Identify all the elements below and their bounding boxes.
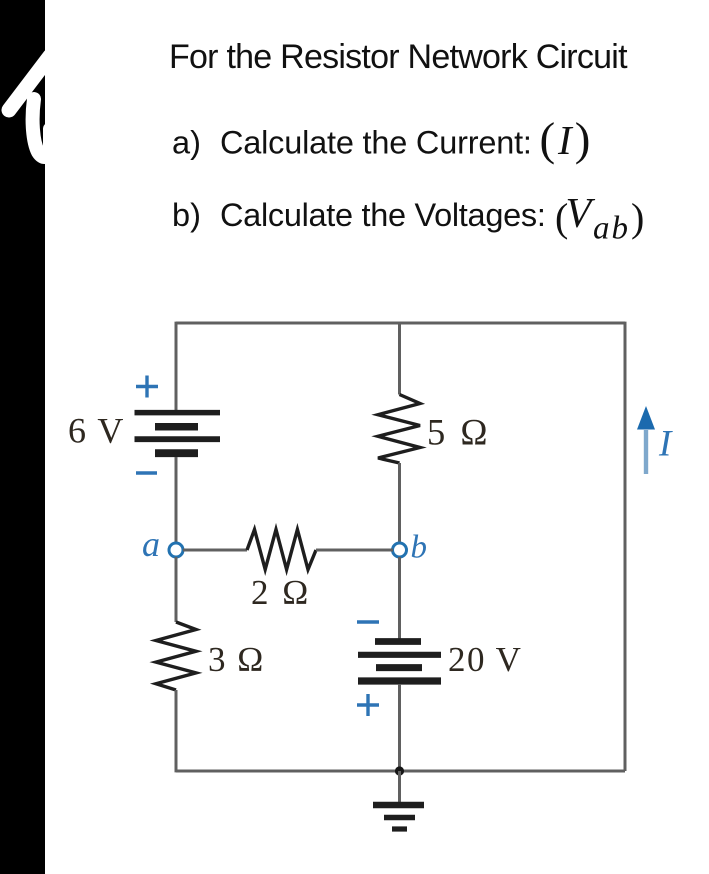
wire left bottom (R 3ohm to bottom wire) [175,690,178,772]
wire from node a to R 2ohm [183,549,247,552]
svg-text:6 V: 6 V [68,411,125,451]
node b terminal [393,543,407,557]
svg-text:a: a [142,524,160,564]
label node b [411,530,428,566]
wire middle lower (node b to battery V2) [398,557,401,639]
wire left upper (top to battery V1) [175,322,178,410]
label node a [142,524,160,564]
label 6 V [68,411,125,451]
svg-text:2 Ω: 2 Ω [251,573,311,612]
resistor R3 3ohm [156,622,196,690]
label 2 ohm [251,573,311,612]
svg-text:): ) [631,195,644,240]
resistor R2 2ohm [247,530,316,570]
node a terminal [169,543,183,557]
svg-text:V: V [566,191,596,237]
item a text [172,114,590,166]
battery V1 6V [135,413,221,454]
wire left lower (node a to R 3ohm) [175,557,178,622]
svg-text:Calculate the Current:: Calculate the Current: [220,125,532,161]
svg-text:For the Resistor Network Circu: For the Resistor Network Circuit [169,38,628,76]
svg-text:20 V: 20 V [448,640,522,679]
wire right side [624,322,627,771]
wire middle upper (top to R 5ohm) [398,323,401,395]
svg-text:): ) [575,114,591,166]
item b text [172,191,644,247]
wire middle mid (R 5ohm to node b) [398,463,401,543]
label 5 ohm [427,412,491,453]
label 3 ohm [208,640,265,679]
wire top [176,322,625,325]
junction dot [395,766,404,775]
label I [658,424,673,465]
scan margin black bar [0,0,45,874]
label 20 V [448,640,522,679]
wire left mid (battery to node a) [175,457,178,543]
wire bottom [176,770,625,773]
plus sign of V2 [357,694,379,716]
handwritten white mark [9,56,50,157]
minus sign of V2 [357,620,379,623]
svg-text:a): a) [172,125,201,161]
battery V2 20V [358,642,441,682]
minus sign of V1 [136,471,157,474]
svg-text:b: b [411,530,428,566]
title text [169,38,628,76]
current arrow I [637,406,655,474]
svg-text:ab: ab [593,211,630,247]
wire middle bottom (battery V2 to bottom wire) [398,684,401,771]
svg-text:b): b) [172,197,201,233]
resistor R1 5ohm [378,395,420,464]
wire to ground [398,771,401,802]
svg-text:3 Ω: 3 Ω [208,640,265,679]
svg-text:I: I [658,424,673,465]
svg-text:I: I [557,117,574,163]
svg-text:(: ( [540,114,556,166]
ground symbol [373,805,424,829]
wire from R 2ohm to node b [316,549,393,552]
plus sign of V1 [136,376,158,398]
svg-text:Calculate the Voltages:: Calculate the Voltages: [220,197,546,233]
svg-text:5 Ω: 5 Ω [427,412,491,453]
